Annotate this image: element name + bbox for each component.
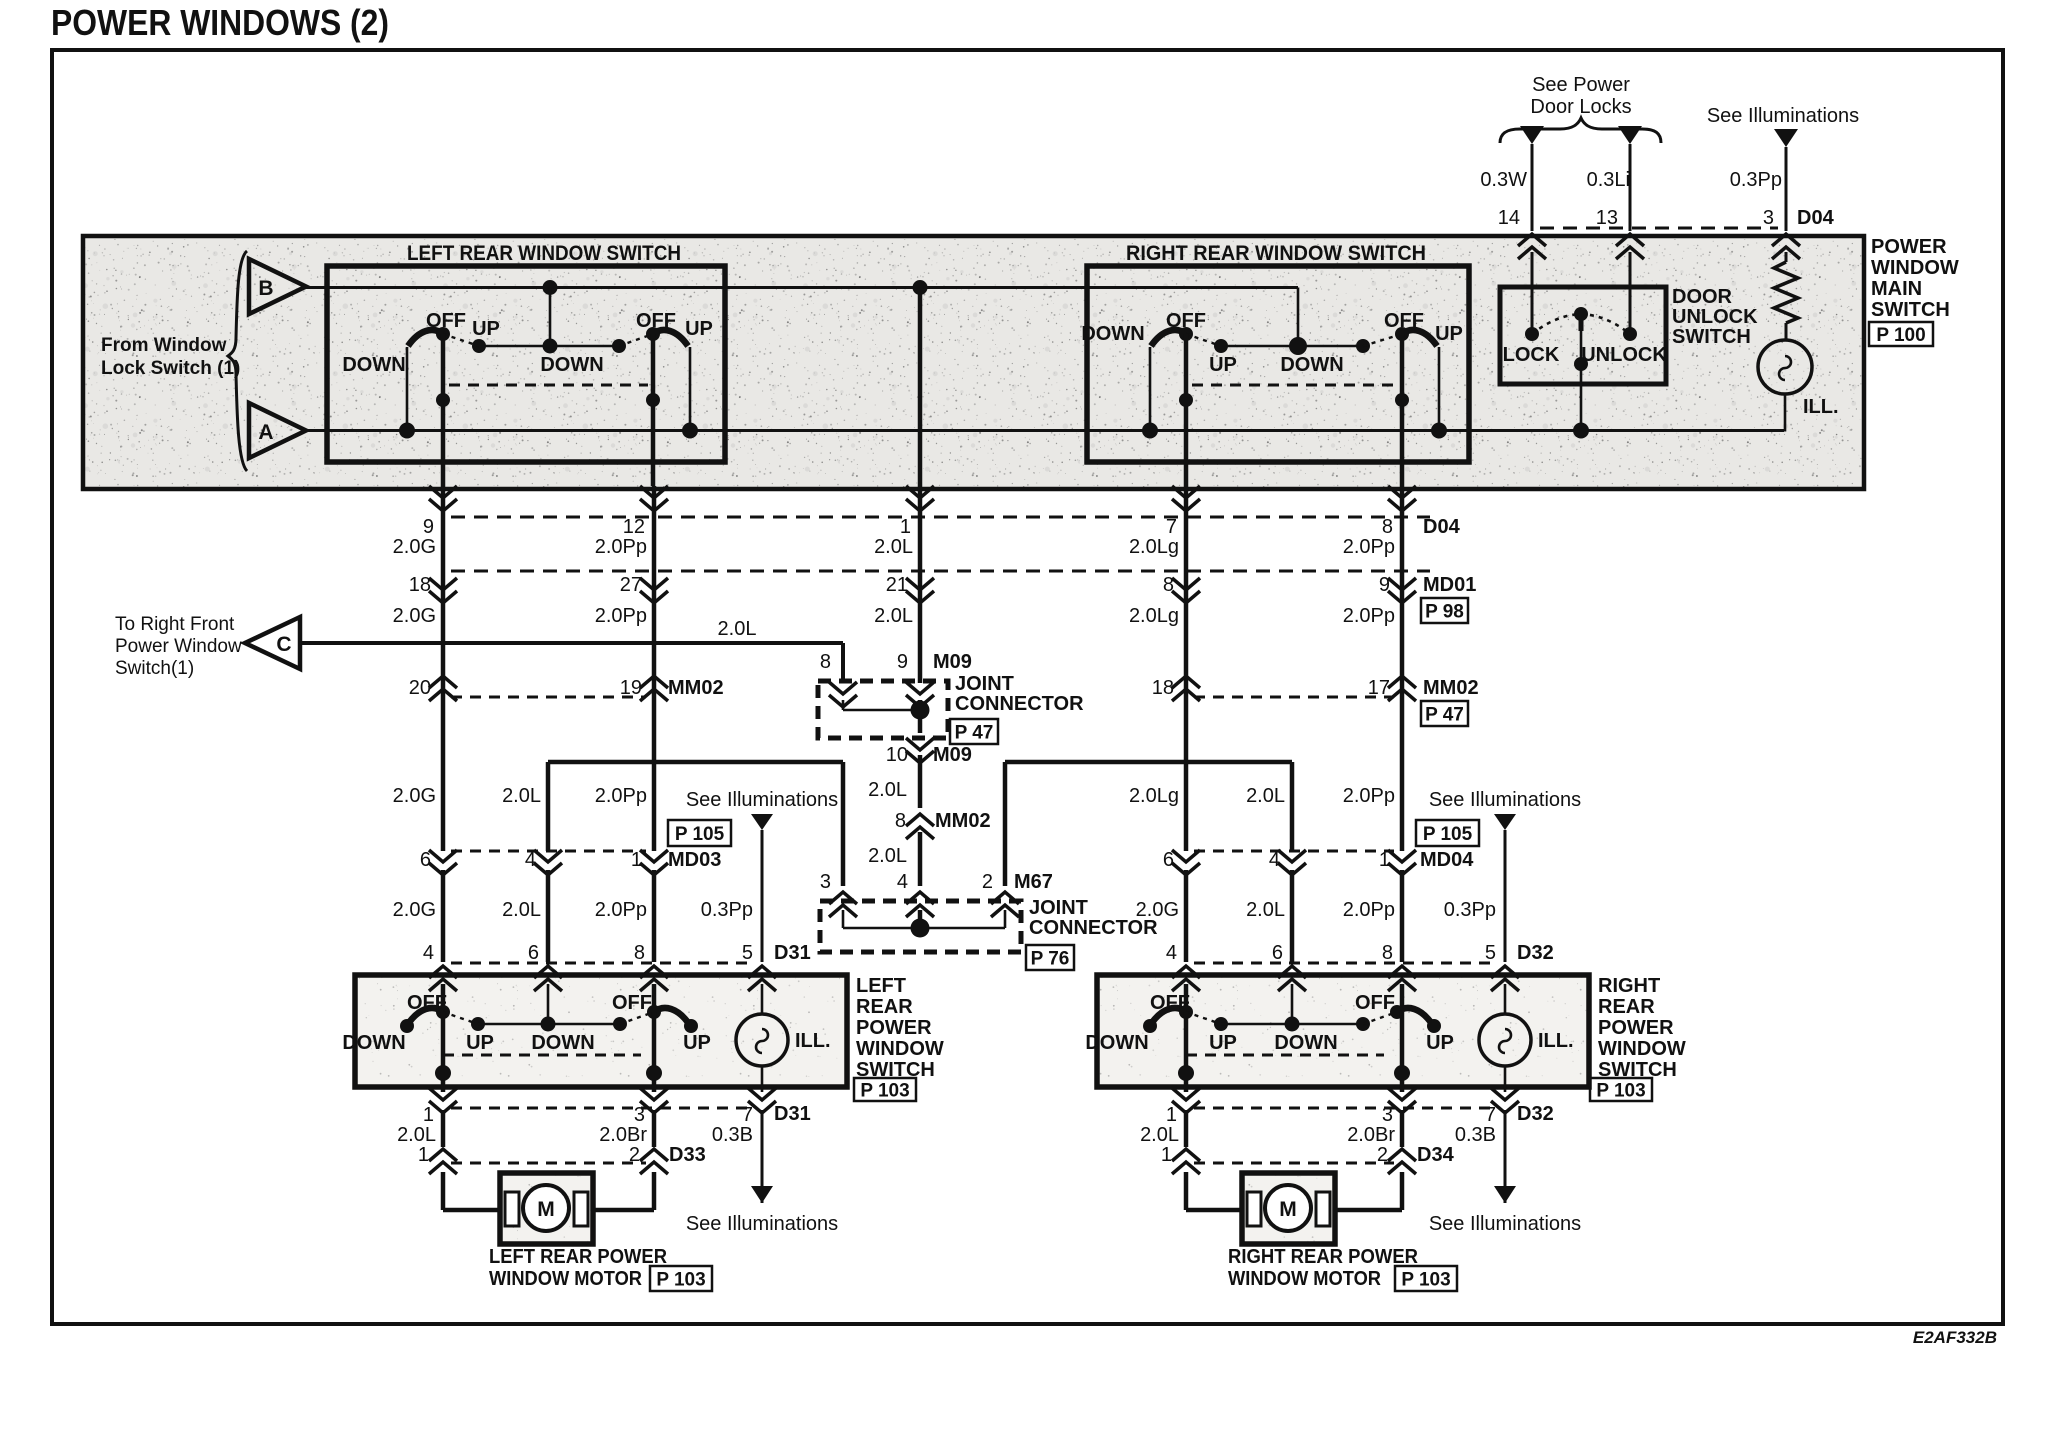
connector MD03 pin6 chevron [429,850,457,875]
wire 0.3Pp left [761,830,764,962]
wire pivot1 br column [1184,1012,1189,1092]
svg-text:A: A [258,421,273,444]
svg-text:UP: UP [1209,354,1237,376]
switch arm bottom-right sw2 [1397,1008,1432,1024]
svg-text:12: 12 [623,516,645,538]
right motor box [1242,1173,1335,1244]
svg-text:MM02: MM02 [1423,677,1479,699]
pivot dot right sw2 [1395,327,1409,341]
wire pivot2 column [651,334,656,486]
svg-text:8: 8 [1382,942,1393,964]
svg-text:5: 5 [742,942,753,964]
svg-text:2.0L: 2.0L [718,618,757,640]
junction dot B-line x550 [543,280,558,295]
arrow into ill wire [1774,129,1798,147]
wire col3 to D33 [652,1110,657,1147]
wire branch right horizontal [1005,760,1292,765]
svg-text:POWER: POWER [1598,1017,1674,1039]
svg-text:WINDOW: WINDOW [1598,1038,1686,1060]
junction dot A x1439 [1431,423,1447,439]
svg-text:OFF: OFF [1150,992,1190,1014]
svg-text:2.0L: 2.0L [502,899,541,921]
svg-text:LEFT REAR POWER: LEFT REAR POWER [489,1246,667,1268]
left motor box [500,1173,593,1244]
junction dot pivot2 x653 [646,393,660,407]
svg-text:OFF: OFF [1355,992,1395,1014]
lamp ILL left switch [736,1014,788,1066]
svg-text:LEFT: LEFT [856,975,906,997]
svg-text:DOWN: DOWN [540,354,603,376]
svg-text:M: M [1279,1198,1297,1221]
arrow see illum left [751,1186,773,1203]
svg-text:B: B [258,277,273,300]
svg-text:D31: D31 [774,1103,811,1125]
dashed link bl sw2 [620,1012,654,1024]
dashed connector D31 bottom [451,1107,754,1110]
svg-text:P 47: P 47 [955,723,994,744]
wire motor left leg1 [441,1172,446,1210]
junction dot br pivot2 [1394,1065,1410,1081]
svg-text:P 103: P 103 [860,1081,909,1102]
wire pivot2r column [1400,334,1405,486]
svg-text:WINDOW MOTOR: WINDOW MOTOR [1228,1268,1382,1290]
junction dot M67 [911,919,930,938]
joint connector M67 dashed box [820,901,1021,952]
svg-text:See Illuminations: See Illuminations [686,1213,838,1235]
wire pivot2 bl column [652,1012,657,1092]
wire UP2r to A [1438,347,1441,431]
wire 2.0G col seg2 none [442,700,444,851]
contact dot DOWN bl sw2 [613,1017,627,1031]
svg-text:2.0Pp: 2.0Pp [1343,605,1395,627]
dashed connector MD04 [1194,850,1394,853]
svg-text:OFF: OFF [407,992,447,1014]
svg-text:LEFT REAR WINDOW SWITCH: LEFT REAR WINDOW SWITCH [407,242,681,265]
wire col1 to D34 [1184,1110,1189,1147]
svg-text:See Illuminations: See Illuminations [1429,1213,1581,1235]
wire DOWN1 to A [406,347,409,431]
wire col pin4 inside [441,984,446,1012]
page ref box P 47 joint [950,719,998,744]
svg-text:2.0Pp: 2.0Pp [595,536,647,558]
dashed arc pivot-unlock [1581,314,1630,334]
svg-text:13: 13 [1596,207,1618,229]
svg-text:D33: D33 [669,1144,706,1166]
connector M67 pin4 chevron [906,892,934,917]
switch arm bottom-left sw2 [654,1008,689,1024]
connector chevron D04 pin14 [1518,234,1546,259]
svg-text:POWER: POWER [856,1017,932,1039]
wire see illum left bottom [761,1110,764,1203]
junction dot pivot2r [1395,393,1409,407]
switch arm right sw2 OFF [1402,330,1437,346]
svg-text:2.0Pp: 2.0Pp [595,785,647,807]
contact dot UP br sw2 [1427,1019,1441,1033]
svg-text:CONNECTOR: CONNECTOR [955,693,1084,715]
left rear window switch box [327,266,725,462]
svg-text:P 103: P 103 [656,1270,705,1291]
page ref box P 103 right switch [1590,1078,1652,1101]
wire branch right drop R2 [1290,762,1295,851]
connector chevrons into right power switch [1172,966,1200,991]
svg-text:1: 1 [423,1104,434,1126]
connector MD01 pin8 chevron [1172,578,1200,603]
junction dot pivot1 x443 [436,393,450,407]
svg-text:UP: UP [683,1032,711,1054]
svg-text:MAIN: MAIN [1871,278,1922,300]
svg-text:2.0L: 2.0L [1140,1124,1179,1146]
wire pivot2 br column [1400,1012,1405,1092]
contact dot DOWN br sw2 [1356,1017,1370,1031]
wire motor right leg2 [1400,1172,1405,1210]
junction dot br 1292 [1285,1017,1300,1032]
contact dot UP bl sw2 [684,1019,698,1033]
svg-text:OFF: OFF [612,992,652,1014]
door unlock switch box [1500,287,1666,384]
svg-text:8: 8 [820,651,831,673]
connector D04 pin1 chevron [906,486,934,511]
svg-text:Power Window: Power Window [115,636,242,657]
wire motor right leg1 [1184,1172,1189,1210]
svg-text:0.3B: 0.3B [1455,1124,1496,1146]
wire col1 to D33 [441,1110,446,1147]
switch arm bottom-right sw1 [1151,1008,1186,1024]
wire pivot1 bl column [441,1012,446,1092]
svg-text:DOOR: DOOR [1672,286,1733,308]
svg-text:DOWN: DOWN [342,1032,405,1054]
connector chevron D04 pin13 [1616,234,1644,259]
svg-text:2.0L: 2.0L [868,779,907,801]
svg-text:2.0Lg: 2.0Lg [1129,536,1179,558]
resistor illumination [1774,262,1798,323]
svg-text:2.0G: 2.0G [393,536,436,558]
wire ill top [1785,252,1788,262]
svg-text:0.3B: 0.3B [712,1124,753,1146]
wire 0.3Pp right [1504,830,1507,962]
svg-text:8: 8 [895,810,906,832]
connector MD01 pin27 chevron [640,578,668,603]
svg-text:0.3Pp: 0.3Pp [701,899,753,921]
svg-text:18: 18 [409,574,431,596]
page ref box P 76 [1026,945,1074,970]
svg-text:1: 1 [1166,1104,1177,1126]
wire 2.0Pp col seg1 [652,486,657,851]
svg-text:P 105: P 105 [675,824,725,845]
svg-text:2.0L: 2.0L [868,845,907,867]
svg-text:ILL.: ILL. [1538,1030,1574,1052]
connector M09 pin10 chevron [906,738,934,763]
svg-text:2.0Lg: 2.0Lg [1129,605,1179,627]
connector MD01 pin21 chevron [906,578,934,603]
wire lamp bottom right [1504,1066,1507,1092]
contact dot UP bl sw1 [471,1017,485,1031]
wire col3 to D34 [1400,1110,1405,1147]
connector chevron D04 pin3 [1772,234,1800,259]
wire col pin5 inside r [1504,984,1507,1014]
svg-text:1: 1 [1161,1144,1172,1166]
wire col pin6 inside r [1291,984,1294,1024]
svg-text:4: 4 [1269,849,1280,871]
connector MM02 pin17 chevron r [1388,676,1416,701]
svg-text:6: 6 [528,942,539,964]
svg-text:D32: D32 [1517,1103,1554,1125]
connector chevrons into left power switch [429,966,457,991]
wire pivot1r column [1184,334,1189,486]
svg-text:See Illuminations: See Illuminations [1707,105,1859,127]
wire drop 550 [549,288,552,347]
svg-text:From Window: From Window [101,335,227,356]
wires M67 inside [842,910,845,928]
svg-text:P 47: P 47 [1425,705,1464,726]
wire A bus [306,429,1784,432]
page ref box P 103 left switch [854,1078,916,1101]
wire resistor to lamp [1785,323,1788,341]
svg-text:4: 4 [525,849,536,871]
svg-text:6: 6 [1272,942,1283,964]
connector chevrons out of left power switch [429,1088,457,1113]
dashed connector D33 [451,1162,646,1165]
wire branch right drop C3 [1003,762,1008,886]
junction dot A x407 [399,423,415,439]
svg-text:2.0Br: 2.0Br [599,1124,647,1146]
wire branch left horizontal [548,760,843,765]
svg-text:MD01: MD01 [1423,574,1476,596]
junction dot M09 [911,701,930,720]
wire 2.0G col seg1 [441,486,446,851]
junction dot bl 548 [541,1017,556,1032]
connector D33 pin2 chevron [640,1149,668,1174]
svg-text:7: 7 [1166,516,1177,538]
svg-text:21: 21 [886,574,908,596]
junction dot br pivot1 [1178,1065,1194,1081]
svg-text:2: 2 [982,871,993,893]
page ref box P 103 left motor [650,1266,712,1291]
page ref box P 98 [1421,598,1468,623]
power window main switch shaded body [83,236,1864,489]
wire 0.3W [1531,144,1534,231]
connector M67 pin2 chevron [991,892,1019,917]
svg-text:2.0L: 2.0L [1246,899,1285,921]
svg-text:RIGHT: RIGHT [1598,975,1660,997]
wire contact row br [1221,1023,1363,1026]
wire 0.3Li [1629,144,1632,231]
contact dot UP left sw1 [472,339,486,353]
wire 2.0L from C [300,641,843,645]
svg-text:Lock Switch (1): Lock Switch (1) [101,358,240,379]
connector MM02 pin20 chevron [429,676,457,701]
svg-text:8: 8 [1163,574,1174,596]
svg-text:UNLOCK: UNLOCK [1581,344,1667,366]
brace door locks [1500,118,1661,143]
svg-text:ILL.: ILL. [795,1030,831,1052]
svg-text:P 103: P 103 [1401,1270,1450,1291]
dashed connector D34 [1194,1162,1394,1165]
switch arm right sw1 OFF [1151,330,1186,346]
contact dot DOWN br sw1 [1143,1019,1157,1033]
svg-text:REAR: REAR [1598,996,1655,1018]
svg-text:POWER WINDOWS (2): POWER WINDOWS (2) [51,2,389,43]
svg-text:M: M [537,1198,555,1221]
connector MD01 pin18 chevron [429,578,457,603]
connector MD04 pin1 chevron [1388,850,1416,875]
svg-text:UP: UP [1426,1032,1454,1054]
wire motor left leg2 [652,1172,657,1210]
connector MD04 pin4 chevron [1278,850,1306,875]
svg-text:Switch(1): Switch(1) [115,658,194,679]
svg-text:2.0G: 2.0G [393,605,436,627]
svg-text:D04: D04 [1797,207,1835,229]
svg-text:4: 4 [1166,942,1177,964]
svg-text:DOWN: DOWN [342,354,405,376]
svg-text:D32: D32 [1517,942,1554,964]
right rear window switch box [1087,266,1469,462]
svg-text:E2AF332B: E2AF332B [1913,1328,1997,1347]
svg-text:MM02: MM02 [935,810,991,832]
svg-text:0.3Li: 0.3Li [1587,169,1630,191]
wire 2.0L mid seg3 [918,832,923,886]
svg-text:5: 5 [1485,942,1496,964]
connector triangle C [245,617,300,669]
dashed connector D04 top [1540,227,1778,230]
svg-text:UP: UP [685,318,713,340]
wire UP2 to A [689,347,692,431]
brace from window lock switch [228,251,247,471]
wire B bus [306,286,1298,289]
connector triangle B [249,259,306,314]
svg-text:M09: M09 [933,744,972,766]
connector MM02 pin8 centre chevron [906,814,934,839]
wire DOWN1r to A [1149,347,1152,431]
svg-text:OFF: OFF [636,310,676,332]
wire M09 pin8 inside [842,700,845,710]
svg-text:2.0Pp: 2.0Pp [1343,785,1395,807]
svg-text:0.3W: 0.3W [1480,169,1527,191]
svg-text:1: 1 [418,1144,429,1166]
svg-text:MM02: MM02 [668,677,724,699]
junction dot A x1150 [1142,423,1158,439]
svg-text:UP: UP [1209,1032,1237,1054]
svg-text:2.0L: 2.0L [874,605,913,627]
svg-text:OFF: OFF [1384,310,1424,332]
contact dot UP br sw1 [1214,1017,1228,1031]
page ref box P 105 right [1416,820,1479,846]
svg-text:4: 4 [897,871,908,893]
junction dot A x690 [682,423,698,439]
svg-text:2.0G: 2.0G [393,785,436,807]
connector D04 pin12 chevron [640,486,668,511]
dashed connector D31 top [451,962,754,965]
svg-text:P 103: P 103 [1596,1081,1645,1102]
svg-text:0.3Pp: 0.3Pp [1730,169,1782,191]
wire pivot to A line [1580,331,1583,431]
wire branch left drop C1 [841,762,846,886]
svg-text:MD04: MD04 [1420,849,1474,871]
svg-text:DOWN: DOWN [1280,354,1343,376]
wire 2.0L main col seg1 [918,288,923,684]
pivot stub door unlock [1579,314,1584,331]
svg-text:2.0Pp: 2.0Pp [595,605,647,627]
svg-text:7: 7 [1485,1104,1496,1126]
wire col pin8 inside r [1400,984,1405,1012]
dashed link br sw1 [1186,1012,1221,1024]
wire 2.0Pp right col seg1 [1400,486,1405,851]
svg-text:0.3Pp: 0.3Pp [1444,899,1496,921]
svg-text:9: 9 [897,651,908,673]
wire cols to left box [441,870,446,962]
svg-text:2.0L: 2.0L [1246,785,1285,807]
svg-text:LOCK: LOCK [1503,344,1560,366]
dashed link left sw1 to UP [443,334,479,346]
connector D33 pin1 chevron [429,1149,457,1174]
wire unlock column [1629,252,1632,334]
wire lamp bottom left [761,1066,764,1092]
svg-text:JOINT: JOINT [1029,897,1088,919]
svg-text:See Power: See Power [1532,74,1630,96]
dashed connector D32 bottom [1194,1107,1497,1110]
connector M67 pin3 chevron [829,892,857,917]
contact dot DOWN left sw2 [612,339,626,353]
svg-text:DOWN: DOWN [1085,1032,1148,1054]
connector chevrons out of right power switch [1172,1088,1200,1113]
svg-text:D34: D34 [1417,1144,1455,1166]
switch arm left sw1 OFF [408,330,443,346]
connector MD04 pin6 chevron [1172,850,1200,875]
svg-text:3: 3 [820,871,831,893]
arrow into lock wire [1520,126,1544,144]
junction dot B-line x920 [913,280,928,295]
svg-text:6: 6 [1163,849,1174,871]
wire contact row left switch [479,345,619,348]
dashed link bl sw1 [443,1012,478,1024]
svg-text:RIGHT REAR WINDOW SWITCH: RIGHT REAR WINDOW SWITCH [1126,242,1426,265]
pivot dot bl sw1 [436,1005,450,1019]
junction dot bl pivot1 [435,1065,451,1081]
pivot dot left sw2 [646,327,660,341]
wire lamp to A line [1784,394,1787,432]
svg-text:WINDOW: WINDOW [856,1038,944,1060]
connector M09 pin8 chevron [829,682,857,707]
svg-text:2.0Pp: 2.0Pp [1343,899,1395,921]
svg-text:UNLOCK: UNLOCK [1672,306,1758,328]
pivot dot right sw1 [1179,327,1193,341]
svg-text:27: 27 [620,574,642,596]
pivot dot door unlock [1574,307,1588,321]
dashed mech link br switch [1186,1054,1384,1057]
wire B drop 1298 [1297,288,1300,347]
svg-text:18: 18 [1152,677,1174,699]
junction dot 1298 contact [1289,337,1307,355]
wire contact row bl [478,1023,620,1026]
wire pivot1 column [441,334,446,486]
svg-text:POWER: POWER [1871,236,1947,258]
wire col pin4 inside r [1184,984,1189,1012]
svg-text:3: 3 [1382,1104,1393,1126]
right rear power window switch box [1097,975,1589,1087]
svg-text:8: 8 [634,942,645,964]
pivot dot left sw1 [436,327,450,341]
svg-text:1: 1 [1379,849,1390,871]
svg-text:9: 9 [1379,574,1390,596]
dashed link right sw1 to UP [1186,334,1221,346]
joint connector M09 dashed box [818,681,948,738]
svg-text:2.0L: 2.0L [502,785,541,807]
svg-text:DOWN: DOWN [1081,323,1144,345]
svg-text:10: 10 [886,744,908,766]
junction dot pivot1r [1179,393,1193,407]
svg-text:ILL.: ILL. [1803,396,1839,418]
svg-text:1: 1 [900,516,911,538]
connector MD03 pin1 chevron [640,850,668,875]
